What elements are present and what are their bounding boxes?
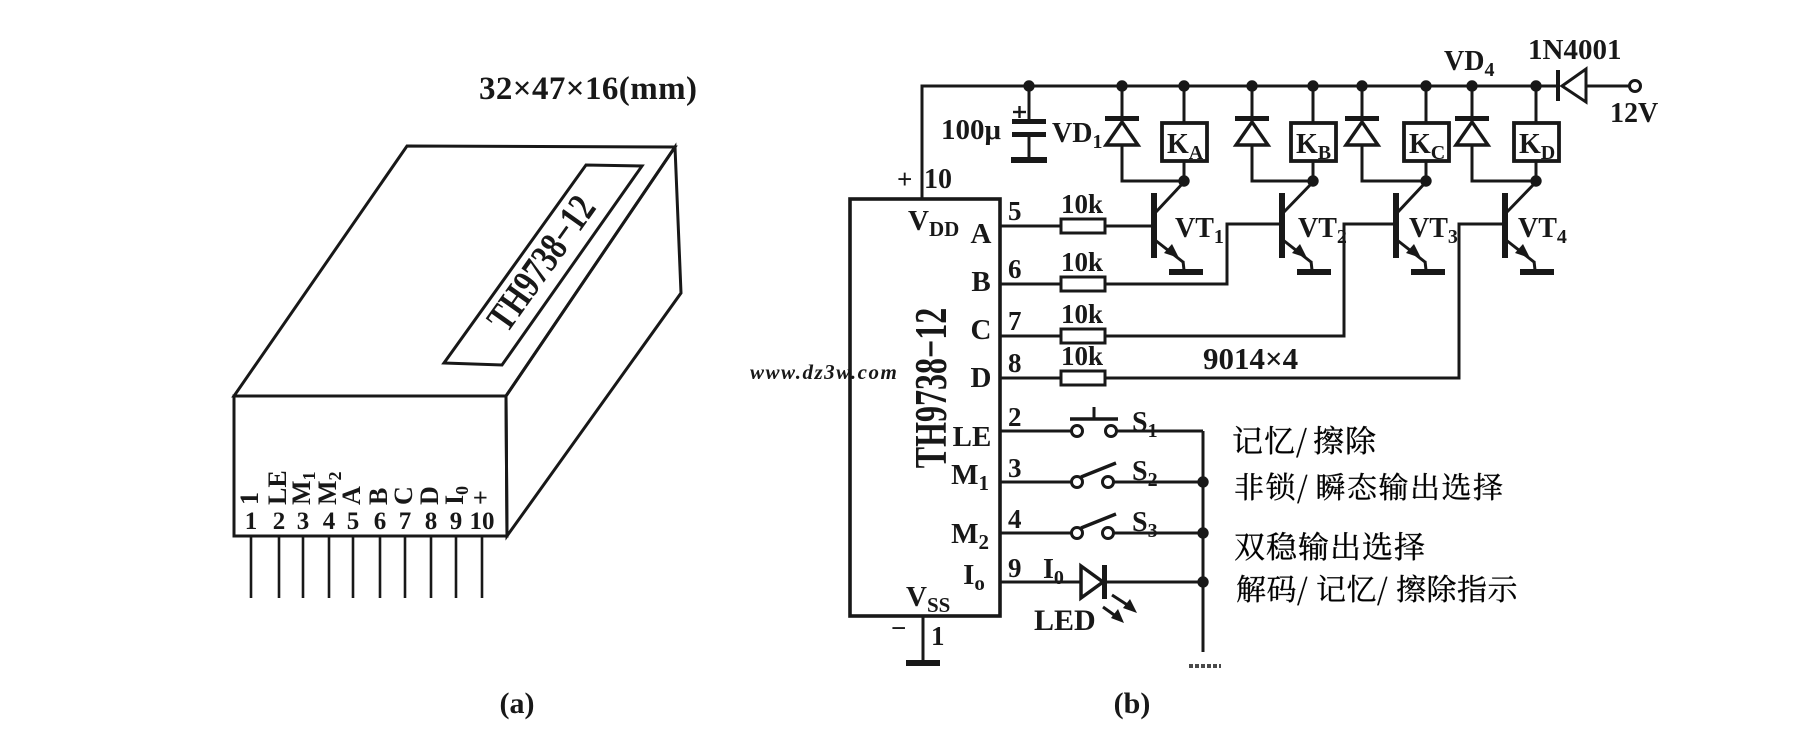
node dot collector x1184 [1178, 175, 1189, 186]
svg-text:100μ: 100μ [941, 114, 1002, 146]
wire resistor to VT base (D row) [1105, 224, 1503, 378]
svg-text:Io: Io [963, 559, 985, 595]
relay KA [1162, 86, 1207, 181]
node dot rail x1184 [1178, 80, 1189, 91]
svg-text:3: 3 [297, 508, 310, 535]
wire pin 3 to S2 [1000, 481, 1072, 484]
node dot collector x1313 [1307, 175, 1318, 186]
svg-text:10k: 10k [1061, 247, 1103, 277]
pin lead 10 [481, 537, 484, 598]
pin lead 8 [430, 537, 433, 598]
node dot rail x1313 [1307, 80, 1318, 91]
svg-text:TH9738−12: TH9738−12 [907, 308, 957, 468]
resistor 10k (D row) [1061, 371, 1105, 385]
svg-text:VDD: VDD [908, 205, 959, 241]
svg-text:3: 3 [1008, 453, 1022, 483]
svg-text:VT4: VT4 [1518, 213, 1567, 248]
node dot rail x1252 [1246, 80, 1257, 91]
svg-text:1: 1 [235, 492, 264, 505]
svg-text:I0: I0 [1043, 554, 1064, 589]
svg-text:10: 10 [924, 164, 952, 195]
svg-text:12V: 12V [1610, 98, 1658, 129]
bus end mark (smudge) [1189, 664, 1221, 668]
svg-text:S1: S1 [1132, 407, 1158, 442]
wire pin 9 to LED [1000, 581, 1080, 584]
svg-text:(a): (a) [500, 687, 535, 720]
node dot rail x1362 [1356, 80, 1367, 91]
svg-text:VT1: VT1 [1175, 213, 1224, 248]
svg-text:LE: LE [953, 421, 992, 453]
svg-text:6: 6 [374, 508, 387, 535]
wire pin 8 to resistor [1000, 377, 1061, 380]
pin lead 6 [379, 537, 382, 598]
pin lead 5 [352, 537, 355, 598]
transistor VT4 [1505, 182, 1536, 270]
wire pin 4 to S3 [1000, 532, 1072, 535]
switch S1 (push-button) [1070, 407, 1118, 437]
node dot rail x1472 [1466, 80, 1477, 91]
node dot rail x1536 [1530, 80, 1541, 91]
svg-text:VSS: VSS [906, 581, 950, 617]
svg-text:2: 2 [1008, 402, 1022, 432]
transistor VT1 [1154, 182, 1184, 270]
svg-text:9: 9 [450, 508, 463, 535]
ground (VSS) [906, 660, 940, 666]
IC U1 TH9738-12 outline [850, 199, 1000, 616]
svg-text:M1: M1 [951, 459, 989, 495]
annotation 记忆/擦除 [1233, 426, 1261, 453]
node dot bus y482 [1197, 476, 1208, 487]
resistor 10k (C row) [1061, 329, 1105, 343]
svg-text:9014×4: 9014×4 [1203, 341, 1298, 376]
terminal 12V [1630, 81, 1641, 92]
node dot rail x1426 [1420, 80, 1431, 91]
switch S2 (toggle) [1072, 463, 1117, 488]
package front face [234, 396, 507, 536]
svg-text:VD1: VD1 [1052, 118, 1102, 153]
relay KD [1514, 86, 1559, 181]
node dot collector x1536 [1530, 175, 1541, 186]
pin lead 7 [404, 537, 407, 598]
pin lead 9 [455, 537, 458, 598]
capacitor plus mark [1013, 106, 1026, 118]
node dot rail x1122 [1116, 80, 1127, 91]
svg-text:4: 4 [1008, 504, 1022, 534]
svg-text:+: + [466, 490, 495, 505]
svg-text:+: + [897, 164, 912, 194]
diode VD4 [1455, 86, 1536, 181]
svg-text:TH9738−12: TH9738−12 [478, 187, 605, 340]
node dot collector x1426 [1420, 175, 1431, 186]
package label plate [444, 165, 642, 365]
svg-text:VT3: VT3 [1409, 213, 1458, 248]
svg-text:M2: M2 [951, 518, 989, 554]
ground (VT4 emitter) [1520, 269, 1554, 275]
svg-text:4: 4 [323, 508, 336, 535]
LED [1081, 565, 1137, 623]
ground (VT1 emitter) [1169, 269, 1203, 275]
wire resistor to VT base (A row) [1105, 225, 1152, 228]
wire pin 5 to resistor [1000, 225, 1061, 228]
wire +V rail [922, 86, 1556, 199]
svg-text:KC: KC [1409, 129, 1445, 164]
svg-text:1: 1 [931, 621, 945, 651]
svg-text:KB: KB [1296, 129, 1331, 164]
ground (VT2 emitter) [1297, 269, 1331, 275]
relay KB [1291, 86, 1336, 181]
pin name labels (rotated) [235, 470, 495, 505]
transistor VT3 [1396, 182, 1426, 270]
wire S2 to bus [1114, 481, 1203, 484]
svg-text:VT2: VT2 [1298, 213, 1347, 248]
diode VD2 [1235, 86, 1313, 181]
svg-text:7: 7 [399, 508, 412, 535]
resistor 10k (A row) [1061, 219, 1105, 233]
capacitor 100μ plates [1011, 119, 1047, 163]
svg-text:B: B [971, 266, 990, 298]
capacitor 100μ lead [1028, 86, 1031, 121]
svg-text:10k: 10k [1061, 189, 1103, 219]
pin lead 2 [278, 537, 281, 598]
svg-text:KD: KD [1519, 129, 1555, 164]
wire pin 7 to resistor [1000, 335, 1061, 338]
svg-text:C: C [971, 314, 992, 346]
wire resistor to VT base (B row) [1105, 224, 1280, 284]
svg-text:8: 8 [425, 508, 438, 535]
svg-text:VD4: VD4 [1444, 46, 1494, 81]
svg-text:C: C [389, 486, 418, 505]
svg-text:7: 7 [1008, 306, 1022, 336]
svg-text:5: 5 [1008, 196, 1022, 226]
diode VD3 [1345, 86, 1426, 181]
svg-text:S2: S2 [1132, 456, 1158, 491]
diode VD1 [1105, 86, 1184, 181]
svg-text:5: 5 [347, 508, 360, 535]
svg-text:10: 10 [470, 508, 495, 535]
pin lead 3 [302, 537, 305, 598]
svg-text:8: 8 [1008, 348, 1022, 378]
svg-text:9: 9 [1008, 553, 1022, 583]
pin numbers 1-10 [245, 508, 495, 535]
ground (VT3 emitter) [1411, 269, 1445, 275]
svg-text:LED: LED [1034, 604, 1096, 637]
package top face [234, 146, 675, 396]
wire resistor to VT base (C row) [1105, 224, 1394, 336]
svg-text:S3: S3 [1132, 507, 1158, 542]
pin 1 wire (VSS) [922, 616, 925, 660]
wire pin 6 to resistor [1000, 283, 1061, 286]
svg-text:10k: 10k [1061, 341, 1103, 371]
svg-text:1: 1 [245, 508, 258, 535]
svg-text:A: A [971, 218, 992, 250]
svg-text:KA: KA [1167, 129, 1204, 164]
node dot rail x1029 [1023, 80, 1034, 91]
annotation 解码/记忆/擦除指示 [1237, 575, 1265, 603]
svg-text:6: 6 [1008, 254, 1022, 284]
wire LED to bus [1107, 581, 1203, 584]
svg-text:2: 2 [273, 508, 286, 535]
svg-text:32×47×16(mm): 32×47×16(mm) [479, 71, 697, 107]
relay KC [1404, 86, 1449, 181]
pin lead 4 [328, 537, 331, 598]
svg-text:−: − [891, 613, 906, 643]
transistor VT2 [1282, 182, 1313, 270]
svg-text:1N4001: 1N4001 [1528, 34, 1621, 66]
wire S3 to bus [1114, 532, 1203, 535]
wire pin 2 to S1 [1000, 430, 1071, 433]
switch S3 (toggle) [1072, 514, 1117, 539]
annotation 非锁/瞬态输出选择 [1235, 473, 1262, 500]
annotation 双稳输出选择 [1235, 533, 1264, 560]
svg-text:D: D [971, 362, 992, 394]
resistor 10k (B row) [1061, 277, 1105, 291]
svg-text:(b): (b) [1114, 687, 1151, 720]
node dot bus y533 [1197, 527, 1208, 538]
svg-text:A: A [337, 486, 366, 505]
node dot bus y582 [1197, 576, 1208, 587]
diode 1N4001 (series) [1556, 69, 1629, 102]
wire S1 to bus [1117, 430, 1203, 433]
package right side face [506, 147, 681, 536]
svg-text:10k: 10k [1061, 299, 1103, 329]
wire right bus [1202, 431, 1205, 652]
svg-text:www.dz3w.com: www.dz3w.com [750, 360, 898, 384]
pin lead 1 [250, 537, 253, 598]
